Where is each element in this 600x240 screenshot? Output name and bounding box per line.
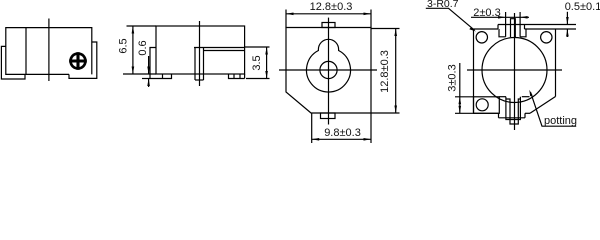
pad step connector right <box>524 25 526 30</box>
right foot divider 2 <box>239 74 241 79</box>
bottom tab <box>506 97 521 120</box>
vertical center line <box>328 18 330 125</box>
dim 9.8 left extension line <box>311 113 313 143</box>
corner hole top-right <box>541 32 552 43</box>
keyhole boss outline <box>307 39 351 92</box>
top tab right edge <box>519 12 521 37</box>
dim 12.8 top line <box>286 13 371 15</box>
dim 2 line <box>471 16 529 18</box>
bottom pads line right <box>522 96 530 98</box>
bottom pad step connector left <box>498 113 500 118</box>
pin housing right edge <box>203 48 205 81</box>
dim 3 extension line <box>455 96 474 98</box>
dim 9.8 right extension line <box>370 113 372 143</box>
right foot divider 3 <box>244 74 246 79</box>
adjustment screw symbol <box>69 52 87 70</box>
svg-text:potting: potting <box>544 115 577 127</box>
dim 3.5 bottom extension line <box>246 78 270 80</box>
top pad box right <box>520 29 526 37</box>
washer divider <box>162 74 164 79</box>
label potting leader <box>531 92 577 126</box>
svg-text:0.6: 0.6 <box>137 40 149 55</box>
left solder washer <box>1 46 25 79</box>
dim 6.5 line <box>132 26 134 74</box>
dim 12.8 top left extension line <box>285 10 287 28</box>
washer bottom strip left <box>150 74 172 79</box>
base ledge upper line <box>194 47 245 49</box>
top edge right segment <box>525 28 556 30</box>
pin housing bottom cap <box>195 79 204 81</box>
top tab left edge <box>505 12 507 37</box>
dim 6.5 bottom extension line <box>123 73 156 75</box>
body cap divider line <box>25 28 27 75</box>
dim 0.6 extension line <box>142 78 150 80</box>
dim 3 bottom extension line <box>455 112 474 114</box>
bottom pad line <box>499 117 526 119</box>
pad top line with extension <box>498 24 576 26</box>
dim 3.5 top extension line <box>245 46 270 48</box>
dim 9.8 line <box>312 138 371 140</box>
washer bottom strip right <box>229 74 245 79</box>
sound hole circle <box>320 61 337 78</box>
corner hole top-left <box>476 32 487 43</box>
dim 0.5 lower arrow <box>566 29 568 37</box>
vertical center line <box>514 13 516 130</box>
base circle <box>482 38 547 103</box>
right edge <box>555 29 557 97</box>
svg-text:0.5±0.1: 0.5±0.1 <box>565 1 600 13</box>
bottom pin slot <box>506 99 521 124</box>
pad step connector left <box>497 25 499 30</box>
svg-text:3.5: 3.5 <box>251 55 263 70</box>
dim 3 line <box>459 63 461 113</box>
top pin <box>511 19 516 37</box>
bottom tab <box>321 113 336 119</box>
pin housing left edge <box>194 48 196 81</box>
left edge <box>473 29 475 113</box>
base ledge lower line <box>204 50 245 52</box>
left washer outer edge <box>150 48 156 79</box>
svg-text:6.5: 6.5 <box>118 38 130 53</box>
buzzer body outline <box>6 28 92 75</box>
right solder washer <box>69 42 97 78</box>
buzzer body rectangle <box>156 26 245 74</box>
bottom pads line left <box>499 96 506 98</box>
dim 6.5 top extension line <box>127 25 157 27</box>
svg-text:2±0.3: 2±0.3 <box>473 7 500 19</box>
bottom edge right segment <box>525 112 530 114</box>
dim 12.8 right top extension line <box>371 28 400 30</box>
right foot divider 1 <box>233 74 235 79</box>
svg-text:12.8±0.3: 12.8±0.3 <box>379 50 391 93</box>
corner hole bottom-left <box>476 99 488 111</box>
bottom pad step connector right <box>524 113 526 118</box>
center line <box>199 21 201 86</box>
label 3-R0.7 leader <box>426 8 475 30</box>
top pad box left <box>499 29 506 37</box>
dim 0.6 lower arrow line <box>148 79 150 88</box>
bottom-left pad rectangle <box>474 97 500 114</box>
dim 3.5 line <box>266 47 268 79</box>
dim 0.5 upper arrow <box>566 12 568 25</box>
dim 12.8 right line <box>395 29 397 114</box>
chamfer <box>530 97 556 114</box>
top edge left segment <box>474 28 499 30</box>
horizontal center line <box>467 69 562 71</box>
square body with chamfered corner <box>286 28 371 114</box>
svg-text:9.8±0.3: 9.8±0.3 <box>324 127 361 139</box>
dim 0.5 extension line <box>556 28 577 30</box>
dim 0.6 upper arrow line <box>148 56 150 74</box>
dim 12.8 right bottom extension line <box>371 112 400 114</box>
horizontal center line <box>279 69 377 71</box>
svg-text:3±0.3: 3±0.3 <box>447 64 459 91</box>
center line <box>48 19 50 82</box>
top tab <box>322 23 335 28</box>
svg-text:12.8±0.3: 12.8±0.3 <box>310 1 353 13</box>
dim 12.8 top right extension line <box>370 10 372 28</box>
bottom edge left segment <box>474 112 500 114</box>
